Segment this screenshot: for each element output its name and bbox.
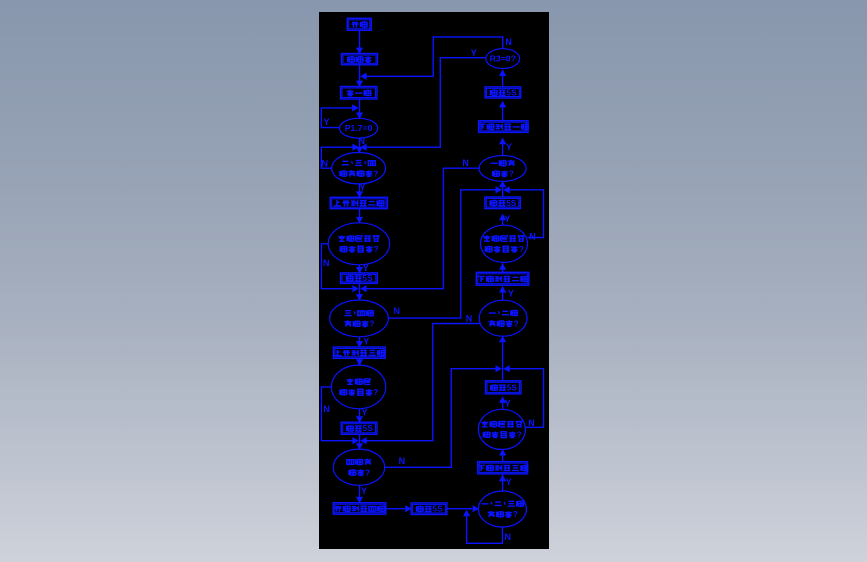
wire floors12 -> descend2 bbox=[502, 291, 504, 300]
junction arrow left at (502.6,368.7) bbox=[504, 366, 510, 372]
decision ellipse: 一楼有请求? bbox=[479, 156, 526, 182]
wire floor1 -> P1.7 bbox=[359, 99, 361, 118]
arrowhead into 下降到达三楼 bbox=[500, 475, 506, 481]
wire descend1 -> stay5s top bbox=[502, 104, 504, 121]
arrowhead into 下降到达一楼 bbox=[500, 138, 506, 144]
wire target check -> stay5s (right lower) bbox=[502, 400, 504, 409]
process box: 停留5S (left upper) bbox=[341, 273, 378, 284]
svg-text:Y: Y bbox=[363, 263, 369, 273]
svg-text:5S: 5S bbox=[362, 274, 373, 283]
svg-text:?: ? bbox=[369, 320, 374, 329]
svg-text:?: ? bbox=[374, 245, 379, 254]
arrowhead into 本楼层是否请求目标 (right upper) bbox=[500, 264, 506, 270]
svg-text:N: N bbox=[394, 306, 401, 316]
process box: 停留5S (right lower) bbox=[486, 381, 522, 394]
junction arrow left at (359,440.7) bbox=[361, 438, 367, 444]
process box: 停留5S (right upper) bbox=[485, 197, 521, 209]
decision ellipse: 一、二、三楼有请求? bbox=[478, 491, 526, 527]
svg-text:?: ? bbox=[519, 245, 524, 254]
wire floors234 N loop bbox=[321, 147, 356, 168]
wire R3 N branch bbox=[363, 37, 503, 76]
wire floors123 -> descend3 bbox=[502, 474, 504, 491]
arrowhead into 停留5S (bottom) bbox=[406, 506, 412, 512]
svg-text:Y: Y bbox=[506, 477, 512, 487]
junction arrow right at (359,288.7) bbox=[353, 286, 359, 292]
decision ellipse: 二、三、四楼有请求? bbox=[332, 153, 386, 184]
process box: 初始化 (initialize) bbox=[342, 54, 378, 65]
arrowhead into 下降到达二楼 bbox=[500, 287, 506, 293]
svg-text:5S: 5S bbox=[363, 424, 374, 433]
decision ellipse: R3=0? bbox=[486, 49, 520, 69]
arrowhead into 停留5S (right lower) bbox=[500, 397, 506, 403]
wire target-check lower -> stay5s bbox=[359, 409, 361, 423]
junction arrow right at (502.6,189.8) bbox=[496, 187, 502, 193]
process box: 停留5S (left lower) bbox=[341, 422, 377, 434]
arrowhead floors123 N loop re-entry bbox=[464, 510, 470, 516]
svg-text:P1.7=0: P1.7=0 bbox=[345, 123, 373, 133]
wire floors34 -> rise3 bbox=[359, 337, 361, 347]
wire floors123 N loop bbox=[467, 512, 503, 543]
arrowhead into 开始到达四楼 bbox=[356, 497, 362, 503]
wire floor4 N up-link bbox=[385, 369, 500, 468]
wire target-check N loop (left upper) bbox=[321, 244, 355, 289]
wire rise2 -> target check bbox=[359, 209, 361, 223]
process box: 下降到达二楼 (descend to floor 2) bbox=[476, 272, 529, 285]
wire descend3 -> target check (right lower) bbox=[502, 450, 504, 462]
arrowhead into 在一楼 bbox=[356, 81, 362, 87]
wire floors12 N branch bbox=[363, 324, 480, 441]
wire target check -> stay5s (right upper) bbox=[502, 214, 504, 225]
arrowhead into 停留5S (right top) bbox=[500, 102, 506, 108]
junction arrow right at (502.6,368.7) bbox=[496, 366, 502, 372]
wire stay5s bottom -> floors123 decision bbox=[447, 508, 472, 510]
wire stay5s -> floor1 request (through junction 189.8) bbox=[502, 187, 504, 197]
process box: 下降到达三楼 (descend to floor 3) bbox=[478, 462, 528, 474]
wire P1.7 -> floors234 decision bbox=[359, 138, 361, 153]
wire rise3 -> target check lower bbox=[359, 358, 361, 365]
svg-text:Y: Y bbox=[505, 399, 511, 409]
decision ellipse: 本楼层是否请求目标? (right lower) bbox=[478, 409, 525, 449]
arrowhead into 二三四楼有请求 bbox=[356, 147, 362, 153]
arrowhead into 三四楼有请求 bbox=[356, 294, 362, 300]
junction arrow left at (502.6,189.8) bbox=[504, 187, 510, 193]
wire stay5s -> floors12 (through junction 368.7) bbox=[502, 342, 504, 380]
svg-text:Y: Y bbox=[359, 183, 365, 193]
svg-text:N: N bbox=[505, 37, 512, 47]
svg-text:?: ? bbox=[514, 319, 519, 328]
svg-text:?: ? bbox=[365, 468, 370, 477]
svg-text:5S: 5S bbox=[506, 199, 517, 208]
arrowhead into 上升到达三楼 bbox=[356, 341, 362, 347]
svg-text:N: N bbox=[399, 456, 406, 466]
wire init->floor1 (junction from R3 N) bbox=[359, 65, 361, 87]
arrowhead into R3=0 ellipse bbox=[500, 70, 506, 76]
wire right-upper N loop bbox=[506, 190, 543, 238]
process box: 在一楼 (at floor 1) bbox=[341, 87, 378, 100]
wire target-check N loop (left lower) bbox=[321, 387, 355, 441]
process box: 下降到达一楼 (descend to floor 1) bbox=[478, 121, 528, 133]
decision ellipse: 四楼有请求? bbox=[333, 449, 384, 485]
svg-text:?: ? bbox=[513, 510, 518, 519]
decision ellipse: 三、四楼有请求? bbox=[330, 300, 389, 337]
wire floors234 -> rise2 bbox=[359, 184, 361, 197]
wire P1.7 Y loop left bbox=[321, 108, 356, 128]
junction arrow right at (359,440.7) bbox=[353, 438, 359, 444]
junction arrow right at (359,147) bbox=[353, 144, 359, 150]
process box: 开始到达四楼 (arrive floor 4) bbox=[333, 503, 386, 515]
arrowhead into 本楼层请求目标 (left lower) bbox=[356, 360, 362, 366]
decision ellipse: 一、二楼有请求? bbox=[479, 300, 527, 336]
arrowhead into 一二三楼有请求 ellipse bbox=[473, 506, 479, 512]
svg-text:?: ? bbox=[517, 431, 522, 440]
junction arrow left at (359,147) bbox=[361, 144, 367, 150]
wire stay5s -> floors34 decision bbox=[359, 283, 361, 300]
arrowhead P1.7 Y loop re-entry bbox=[352, 105, 358, 111]
decision ellipse: 本楼层是否请求目标? (left upper) bbox=[328, 223, 389, 265]
svg-text:N: N bbox=[323, 404, 330, 414]
svg-text:Y: Y bbox=[363, 337, 369, 347]
wire floor4 -> arrive4 bbox=[359, 485, 361, 502]
arrowhead into 本楼层是否请求目标 (left upper) bbox=[356, 217, 362, 223]
arrowhead into P1.7=0 bbox=[356, 113, 362, 119]
arrowhead into 停留5S (left upper) bbox=[356, 267, 362, 273]
process box: 停留5S (right top) bbox=[485, 87, 521, 98]
arrowhead into 四楼有请求 bbox=[356, 444, 362, 450]
wire floors34 N up-link bbox=[388, 190, 499, 318]
svg-text:Y: Y bbox=[361, 407, 367, 417]
svg-text:N: N bbox=[322, 159, 329, 169]
svg-text:Y: Y bbox=[508, 288, 514, 298]
wire floor1req -> descend1 bbox=[502, 138, 504, 155]
svg-text:Y: Y bbox=[506, 142, 512, 152]
svg-text:N: N bbox=[528, 418, 535, 428]
svg-text:R3=0?: R3=0? bbox=[490, 54, 516, 64]
arrowhead into 上升到达二楼 bbox=[356, 192, 362, 198]
svg-text:N: N bbox=[529, 232, 536, 242]
arrowhead into 一楼有请求 ellipse bbox=[500, 181, 506, 187]
svg-text:N: N bbox=[323, 258, 330, 268]
wire stay5s -> R3 check bbox=[502, 75, 504, 87]
arrowhead into 一二楼有请求 ellipse bbox=[500, 336, 506, 342]
wire target-check -> stay5s bbox=[359, 265, 361, 273]
svg-text:N: N bbox=[466, 314, 473, 324]
svg-text:5S: 5S bbox=[507, 383, 518, 392]
svg-text:5S: 5S bbox=[506, 88, 517, 97]
svg-text:?: ? bbox=[373, 169, 378, 178]
black CAD drawing canvas bbox=[319, 12, 549, 549]
process box: 上升到达三楼 (rise to floor 3) bbox=[333, 347, 385, 358]
wire descend2 -> target check (right upper) bbox=[502, 262, 504, 272]
arrowhead into 初始化 bbox=[356, 48, 362, 54]
process box: 停留5S (bottom) bbox=[411, 503, 447, 515]
wire arrive4 -> stay5s bottom bbox=[386, 508, 405, 510]
svg-text:?: ? bbox=[509, 170, 514, 179]
svg-text:?: ? bbox=[373, 388, 378, 397]
junction arrow left at (361,76.3) bbox=[361, 73, 367, 79]
decision ellipse: 本楼层请求目标? (left lower) bbox=[331, 365, 385, 409]
svg-text:5S: 5S bbox=[433, 505, 444, 514]
svg-text:N: N bbox=[462, 158, 469, 168]
process box: 开始 (start) bbox=[347, 18, 371, 30]
svg-text:Y: Y bbox=[361, 486, 367, 496]
wire start->init bbox=[359, 30, 361, 53]
arrowhead into 停留5S (right upper) bbox=[500, 214, 506, 220]
svg-text:Y: Y bbox=[323, 117, 329, 127]
junction arrow left at (359,288.7) bbox=[361, 286, 367, 292]
decision ellipse: 本楼层是否请求目标? (right upper) bbox=[481, 225, 528, 262]
arrowhead into 本楼层是否请求目标 (right lower) bbox=[500, 450, 506, 456]
wire R3 Y branch bbox=[363, 58, 486, 148]
svg-text:N: N bbox=[505, 532, 512, 542]
wire floor1-request N branch bbox=[363, 168, 479, 289]
wire right-lower N loop bbox=[506, 369, 543, 428]
process box: 上升到达二楼 (rise to floor 2) bbox=[330, 197, 387, 208]
svg-text:Y: Y bbox=[471, 48, 477, 58]
decision ellipse: P1.7=0 bbox=[340, 118, 378, 138]
arrowhead into 停留5S (left lower) bbox=[356, 417, 362, 423]
wire stay5s -> floor4 decision bbox=[359, 434, 361, 449]
